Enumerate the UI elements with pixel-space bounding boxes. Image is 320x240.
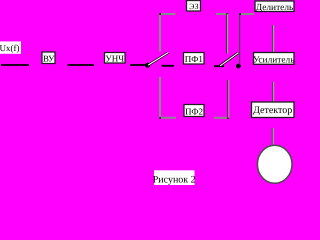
- wire switch SA1 up to EZ row: [159, 14, 161, 52]
- wire divider row down to switch SA2 dot: [239, 14, 241, 64]
- label Ux(f) input signal: [0, 41, 21, 53]
- wire EZ row right horizontal: [216, 13, 228, 15]
- wire UNCh to switch SA1: [130, 64, 146, 66]
- block EZ (delay unit): [187, 1, 201, 12]
- wire VU to UNCh: [68, 64, 95, 66]
- svg-text:Усилитель: Усилитель: [253, 55, 295, 65]
- block Delitel (divider): [255, 1, 294, 13]
- svg-text:ЭЗ: ЭЗ: [189, 2, 198, 11]
- junction dot switch SA2: [236, 64, 241, 69]
- wire EZ row left horizontal: [159, 13, 176, 15]
- svg-text:ВУ: ВУ: [43, 54, 55, 64]
- svg-text:Детектор: Детектор: [253, 105, 292, 116]
- wire input to VU: [1, 64, 29, 66]
- wire Usilitel down to Detektor: [273, 82, 274, 102]
- wire EZ row down to switch SA2: [227, 14, 228, 54]
- switch SA2 arm: [220, 53, 239, 66]
- svg-text:Рисунок 2: Рисунок 2: [153, 174, 196, 185]
- indicator meter circle: [257, 145, 292, 183]
- block Detektor (detector): [252, 102, 295, 118]
- svg-text:УНЧ: УНЧ: [105, 54, 124, 64]
- block UNCh (low-frequency amplifier): [105, 53, 126, 64]
- svg-text:Делитель: Делитель: [256, 3, 294, 13]
- wire Detektor down to indicator: [272, 128, 273, 146]
- junction dot switch SA1 pivot: [145, 63, 150, 68]
- wire PF2 row right horizontal: [214, 117, 229, 119]
- block PF2 (bandpass filter 2): [184, 105, 204, 117]
- contact dash switch SA1 to PF1: [162, 65, 175, 67]
- svg-text:Uх(f): Uх(f): [0, 43, 20, 53]
- block PF1 (bandpass filter 1): [184, 53, 205, 65]
- wire divider row horizontal: [239, 13, 254, 15]
- contact dash PF1 to switch SA2: [214, 65, 224, 67]
- block VU (input amplifier): [42, 52, 55, 64]
- wire switch SA1 down to PF2 row: [159, 77, 161, 118]
- wire PF2 row up to switch SA2: [228, 80, 229, 118]
- svg-text:ПФ2: ПФ2: [185, 107, 203, 117]
- wire Delitel down to Usilitel: [273, 25, 274, 53]
- wire PF2 row left horizontal: [159, 117, 176, 119]
- caption Risunok 2: [153, 170, 196, 185]
- block Usilitel (amplifier): [253, 53, 295, 66]
- switch SA1 arm: [148, 53, 169, 66]
- svg-text:ПФ1: ПФ1: [185, 54, 203, 64]
